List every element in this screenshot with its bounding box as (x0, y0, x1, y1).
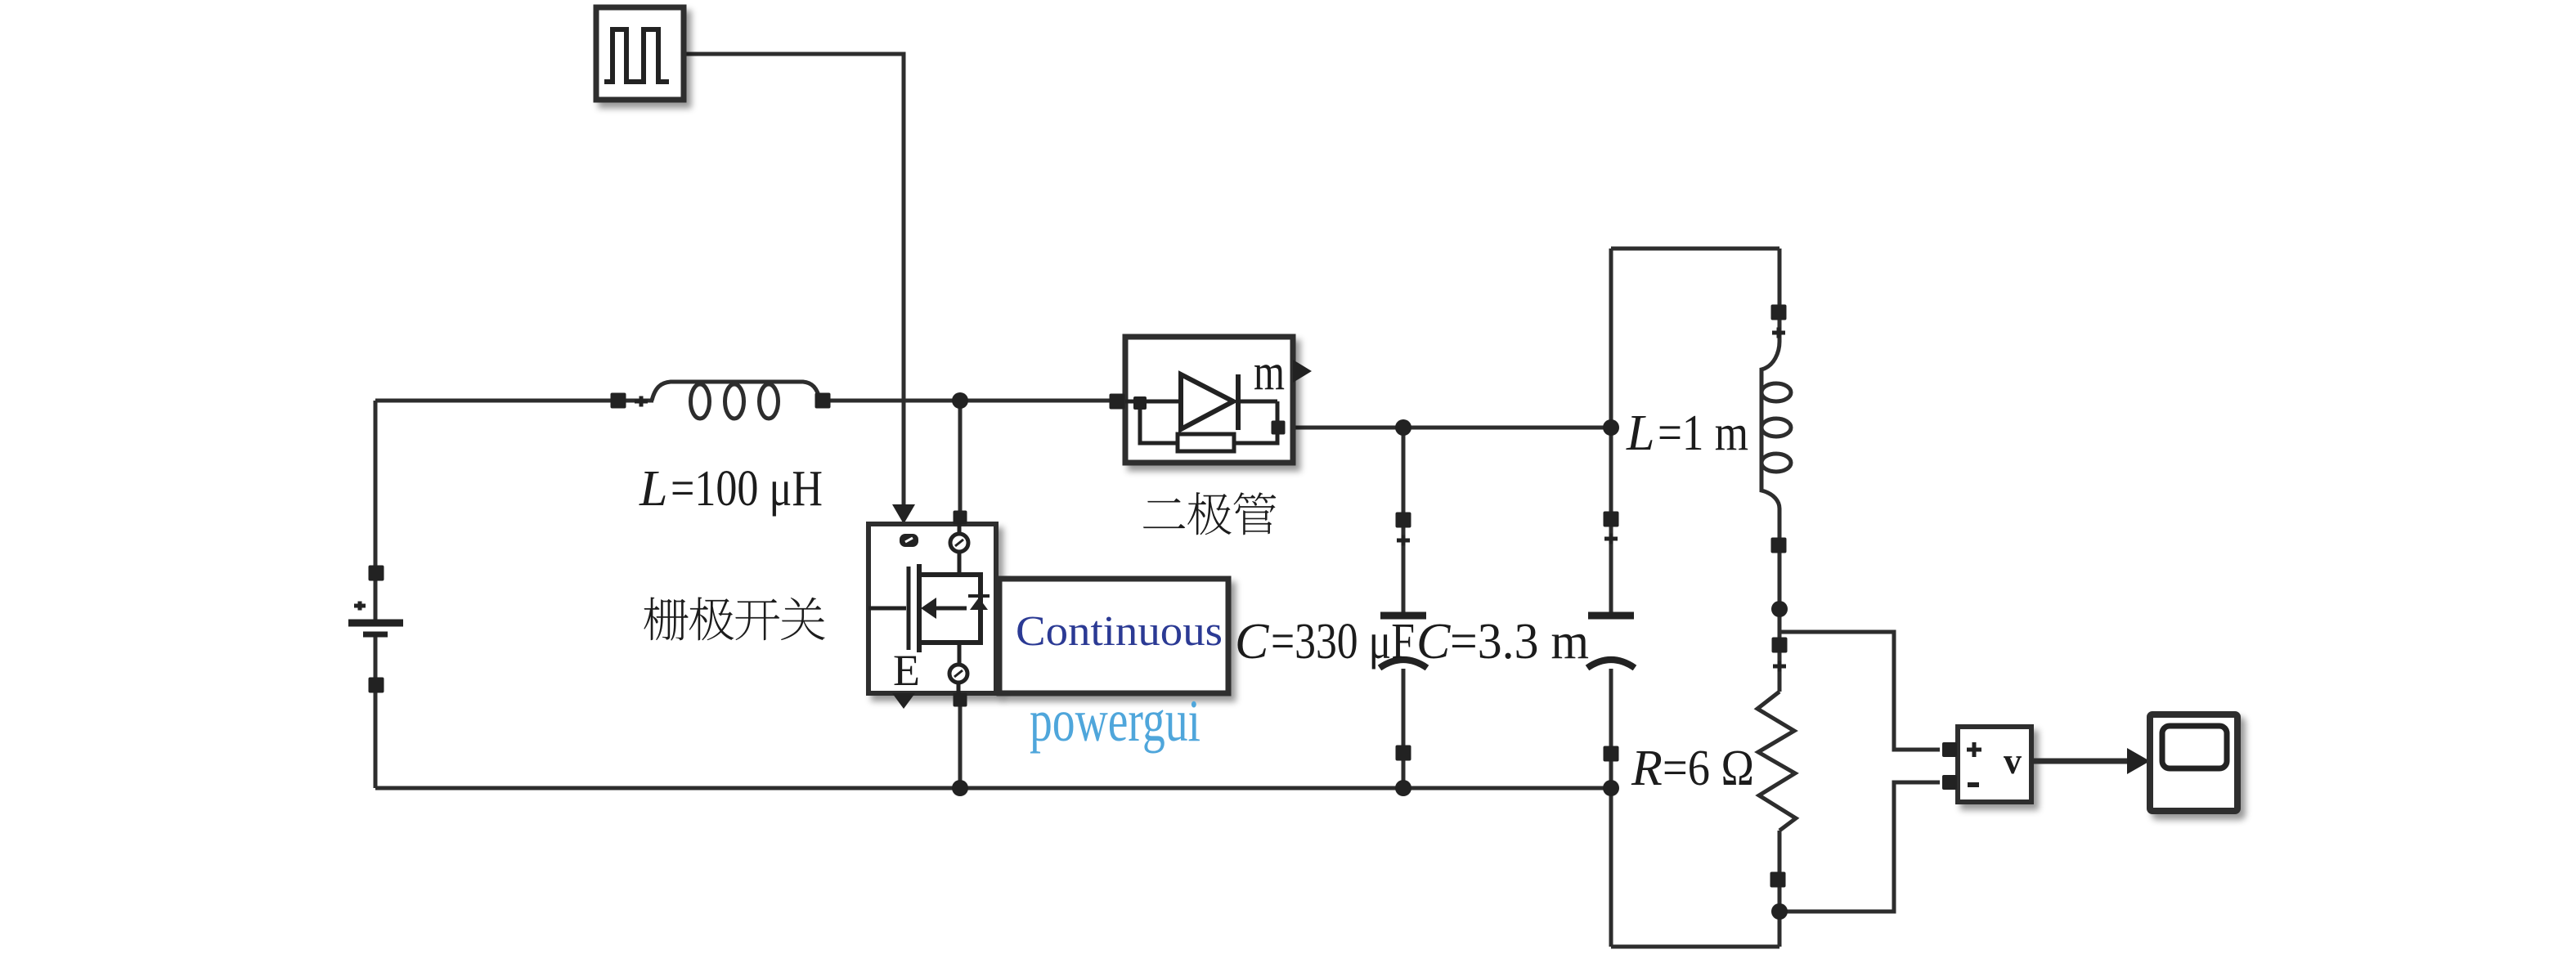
svg-text:=1 m: =1 m (1658, 405, 1748, 461)
inductor L2 tick (1772, 328, 1785, 338)
label 栅极开关 (644, 597, 688, 640)
MOSFET block (栅极开关) (868, 524, 996, 693)
diode anode lead (1125, 400, 1181, 404)
scope screen (2162, 726, 2227, 768)
battery positive plate (348, 620, 403, 627)
svg-text:R: R (1631, 741, 1663, 796)
MOSFET emitter arrow (921, 598, 936, 619)
wire: bottom of RL load loop (1611, 945, 1779, 949)
capacitor C1 top port (1396, 513, 1411, 528)
node: C=330uF top junction (1395, 419, 1411, 436)
voltmeter minus port (1942, 775, 1957, 790)
diode cathode bar (1236, 374, 1241, 430)
battery negative port (369, 678, 384, 693)
MOSFET bottom port (954, 693, 967, 707)
svg-text:Continuous: Continuous (1016, 608, 1223, 655)
pulse generator block (596, 7, 684, 100)
MOSFET gate port icon (900, 534, 918, 547)
wire: MOSFET collector to top net (958, 401, 963, 513)
node: bottom net / output line junction (1603, 780, 1619, 796)
diode output port (1272, 421, 1286, 435)
wire: bottom ground net (375, 786, 1611, 791)
MOSFET bottom-left arrow (892, 693, 915, 709)
wire: battery branch (left vertical) (374, 401, 378, 788)
MOSFET channel top (919, 575, 981, 643)
capacitor C2 tick (1604, 534, 1618, 544)
node: emitter / bottom net junction (952, 780, 968, 796)
MOSFET gate bar 1 (907, 567, 911, 650)
inductor L2 bottom port (1771, 538, 1787, 553)
wire: pulse generator to MOSFET gate (684, 54, 904, 507)
wire: capacitor C=330uF branch (1402, 428, 1406, 788)
MOSFET collector circle (950, 534, 968, 552)
MOSFET gate bar 2 (917, 564, 922, 652)
svg-text:E: E (893, 646, 920, 695)
node: collector / top net junction (952, 392, 968, 409)
diode snubber resistor (1178, 434, 1234, 451)
voltmeter plus sign (1967, 742, 1981, 757)
diode inner node square (1133, 396, 1147, 410)
label 二极管 (1143, 498, 1185, 528)
MOSFET gate lead (868, 607, 906, 611)
MOSFET internal diode (970, 598, 988, 610)
scope block (2150, 714, 2237, 811)
svg-text:powergui: powergui (1030, 688, 1200, 754)
wire: resistor top to voltmeter plus (1779, 632, 1940, 750)
wire: load branch vertical segments (1778, 249, 1782, 947)
wire: resistor bottom to voltmeter minus (1779, 782, 1940, 911)
diode input port (1110, 394, 1125, 410)
inductor L1 right port (815, 393, 831, 409)
diode cathode lead (1238, 400, 1277, 404)
powergui block (Continuous) (999, 579, 1228, 693)
capacitor C1 tick (1397, 535, 1410, 546)
svg-text:L: L (1626, 405, 1654, 461)
node: output node junction (1603, 419, 1619, 436)
wire: output node vertical (C=3.3m branch) (1609, 249, 1613, 947)
diode triangle (1181, 374, 1233, 429)
inductor L2 top port (1771, 305, 1787, 320)
pulse waveform icon (604, 29, 669, 82)
wire: top net from battery to diode anode (375, 399, 1117, 403)
signal arrowhead (2127, 748, 2150, 774)
inductor L1 coil (652, 382, 820, 401)
voltage measurement block (1958, 727, 2031, 802)
svg-text:=100 μH: =100 μH (671, 461, 823, 517)
voltmeter minus sign (1968, 782, 1979, 787)
signal wire voltmeter to scope (2031, 759, 2127, 764)
MOSFET internal collector lead (958, 524, 962, 575)
capacitor C2 bottom port (1604, 746, 1619, 762)
node: below resistor junction (1771, 903, 1788, 920)
svg-text:=6 Ω: =6 Ω (1663, 741, 1754, 796)
MOSFET collector top port (954, 511, 967, 525)
capacitor C1 curved plate (1380, 660, 1427, 668)
diode measurement arrow m (1293, 360, 1312, 383)
wire: top of RL load loop (1611, 247, 1779, 251)
diode snubber path (1140, 401, 1277, 443)
capacitor C1 top plate (1380, 612, 1426, 620)
svg-text:v: v (2004, 740, 2022, 782)
svg-text:=330 μF: =330 μF (1271, 614, 1415, 670)
voltmeter plus port (1942, 742, 1957, 757)
inductor L2 coil (1761, 342, 1779, 508)
MOSFET emitter circle (949, 665, 967, 683)
capacitor C1 bottom port (1396, 746, 1411, 761)
svg-text:m: m (1254, 343, 1285, 401)
node: C=330uF bottom junction (1395, 780, 1411, 796)
battery negative plate (363, 632, 388, 638)
svg-text:=3.3 m: =3.3 m (1450, 614, 1589, 670)
resistor R zigzag (1757, 692, 1796, 831)
capacitor C2 top port (1604, 512, 1619, 527)
resistor R tick (1773, 661, 1786, 672)
inductor L1 polarity tick (635, 396, 648, 407)
wire: MOSFET emitter to bottom net (958, 705, 963, 788)
resistor R bottom port (1770, 872, 1786, 888)
capacitor C2 curved plate (1587, 660, 1635, 668)
battery plus sign (354, 602, 366, 611)
capacitor C2 top plate (1588, 612, 1634, 620)
inductor L1 left port (611, 393, 626, 409)
diode block (二极管) (1125, 337, 1293, 463)
resistor R top port (1772, 638, 1788, 653)
svg-text:L: L (639, 461, 667, 517)
wire: diode cathode to output node (1293, 426, 1611, 430)
svg-text:C: C (1416, 614, 1451, 670)
node: above resistor junction (1771, 601, 1788, 617)
svg-text:C: C (1235, 614, 1269, 670)
gate arrowhead into MOSFET (892, 504, 915, 524)
battery positive port (369, 566, 384, 581)
